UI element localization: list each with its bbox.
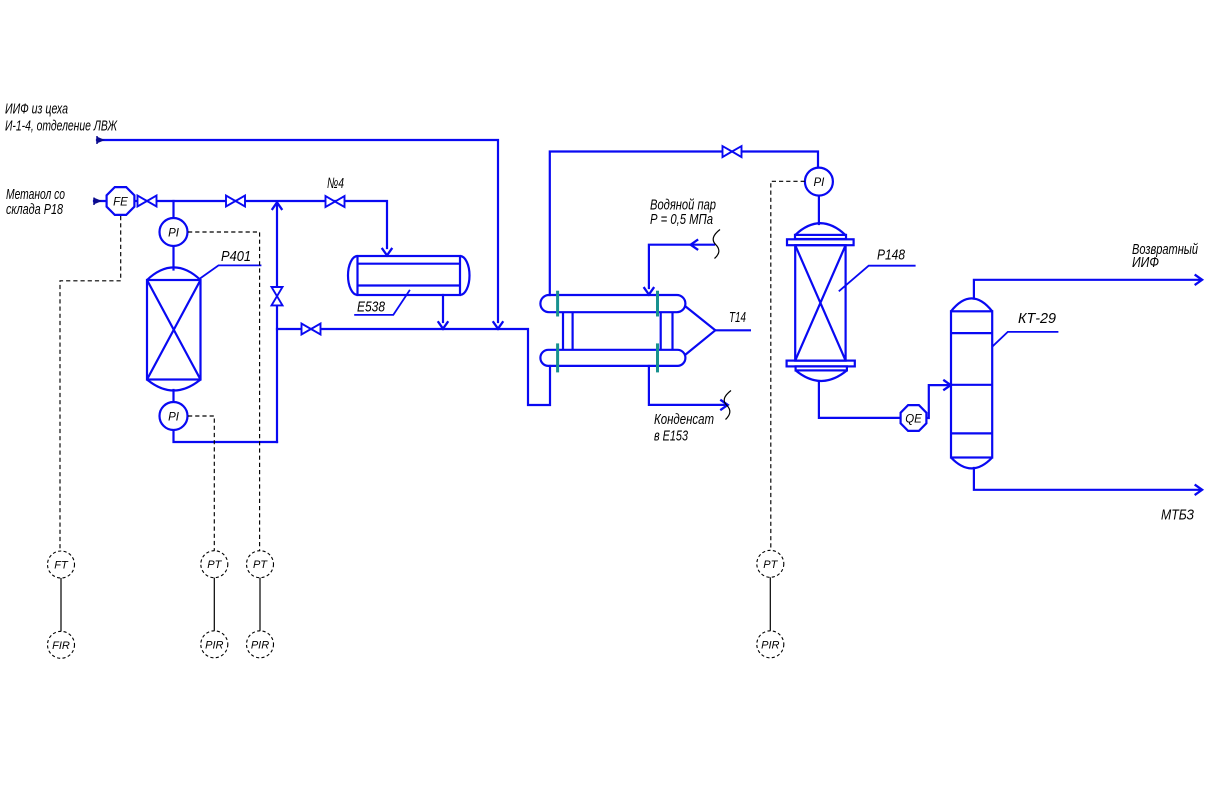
svg-text:ИИФ из цеха: ИИФ из цеха [5,101,68,118]
svg-text:QE: QE [905,414,922,426]
svg-text:PT: PT [253,559,268,571]
instrument FT [48,550,784,658]
teal tick marks T14 [558,291,658,373]
valve on collector [302,324,321,335]
wire steam feed [649,245,714,288]
instrument stems [61,577,770,631]
junction arrow up at (277,201) [272,202,281,209]
svg-text:PIR: PIR [251,639,269,651]
column KT-29 [951,298,992,468]
wire PI3 to P148 [818,196,820,225]
wire reactor to PI2 [172,390,174,402]
instrument letters [52,177,922,652]
wire T14 vapor line to P148 [550,152,818,296]
svg-text:склада Р18: склада Р18 [6,201,63,218]
svg-text:Конденсат: Конденсат [654,411,714,428]
leader E538 [354,290,410,315]
valve No4 [326,196,345,207]
instrument PIR c [757,631,784,658]
arrow MTBZ out [1196,485,1203,494]
instrument PT a [201,551,228,578]
arrow return IIF out [1196,275,1203,284]
arrow condensate out [721,400,728,409]
leader P401 [200,265,261,278]
wire PT b to PIR b [259,578,261,631]
dashed signal lines [60,181,805,552]
exchanger T14 upper tube [540,295,751,366]
svg-text:PIR: PIR [761,639,779,651]
instrument PT b [247,551,274,578]
wire methanol header [94,201,387,248]
instrument PIR b [247,631,274,658]
svg-text:№4: №4 [327,175,344,192]
squiggle condensate break [724,391,731,420]
wire IIF drop arrow [493,322,502,329]
vessel P401 [147,267,201,390]
svg-text:МТБЗ: МТБЗ [1161,507,1194,524]
svg-text:FIR: FIR [52,640,70,652]
signal FE to FT [60,216,121,552]
T14 cone [685,306,715,355]
signal PI1 to PT2 [188,232,260,552]
wire QE to KT29 [927,385,950,418]
squiggle steam break [713,230,720,259]
wire KT29 top product [974,280,1200,299]
tick T14 upper tube right [656,291,659,317]
valve after FE [138,146,742,334]
arrow QE feed into KT-29 [944,381,951,390]
wire collector y=329 [277,329,550,405]
tick T14 lower tube left [556,343,559,372]
svg-text:Р148: Р148 [877,247,906,264]
instrument FIR [48,631,75,658]
wire reactor bottom run [174,430,278,442]
svg-text:PI: PI [168,412,180,424]
inlet arrow IIF [97,137,106,144]
wire PI1 to reactor [172,246,174,270]
instrument FE octagon [107,168,927,431]
signal PI2 to PT1 [188,416,214,552]
svg-text:Е538: Е538 [357,299,386,316]
svg-text:PI: PI [813,177,825,189]
tick T14 lower tube right [656,343,659,372]
wire IIF inlet header [97,140,498,322]
instrument QE octagon [901,405,927,431]
signal PI3 to PT3 [771,181,805,552]
T14 outlet stub [715,329,751,331]
exchanger T14 lower tube [540,350,685,366]
instrument PT c [757,550,784,577]
wire P148 bottom to QE [819,382,900,418]
T14 connecting tubes [563,312,673,350]
instrument PI1 circle [160,218,188,246]
exchanger E538 [348,256,470,295]
svg-text:Р = 0,5 МПа: Р = 0,5 МПа [650,211,713,228]
instrument PI3 circle [805,168,833,196]
wire condensate line [649,366,726,405]
svg-text:ИИФ: ИИФ [1132,254,1159,271]
arrow steam into T14 [644,288,653,295]
instrument PI2 circle [160,402,188,430]
tick T14 upper tube left [556,291,559,317]
svg-text:FE: FE [113,197,128,209]
wire KT29 bottom product [974,468,1200,490]
svg-text:PI: PI [168,228,180,240]
svg-text:КТ-29: КТ-29 [1018,310,1057,327]
wire E538 inlet arrow [382,249,391,256]
wire PT a to PIR a [213,578,215,631]
arrow steam flow left [691,240,698,249]
leader KT-29 [992,332,1058,347]
inlet arrow methanol [94,198,103,205]
svg-text:FT: FT [54,560,69,572]
svg-text:PT: PT [207,559,222,571]
wire recycle riser x=277 [276,203,278,442]
svg-text:PT: PT [763,559,778,571]
svg-text:PIR: PIR [205,639,223,651]
leader P148 [839,266,916,292]
svg-text:в Е153: в Е153 [654,428,688,445]
instrument PIR a [201,631,228,658]
wire PT c to PIR c [769,577,771,631]
wire PI1 tap [172,201,174,218]
vessel P148 [787,223,855,381]
wire E538 outlet drop [442,295,444,322]
valve vertical on riser [272,287,283,305]
svg-text:Р401: Р401 [221,248,251,265]
wire FT to FIR [60,578,62,631]
arrow E538 outlet into collector [438,322,447,329]
svg-text:Т14: Т14 [729,309,746,326]
valve on vapor line [723,146,742,157]
valve 2 on methanol header [226,196,245,207]
svg-text:И-1-4, отделение ЛВЖ: И-1-4, отделение ЛВЖ [5,118,118,135]
